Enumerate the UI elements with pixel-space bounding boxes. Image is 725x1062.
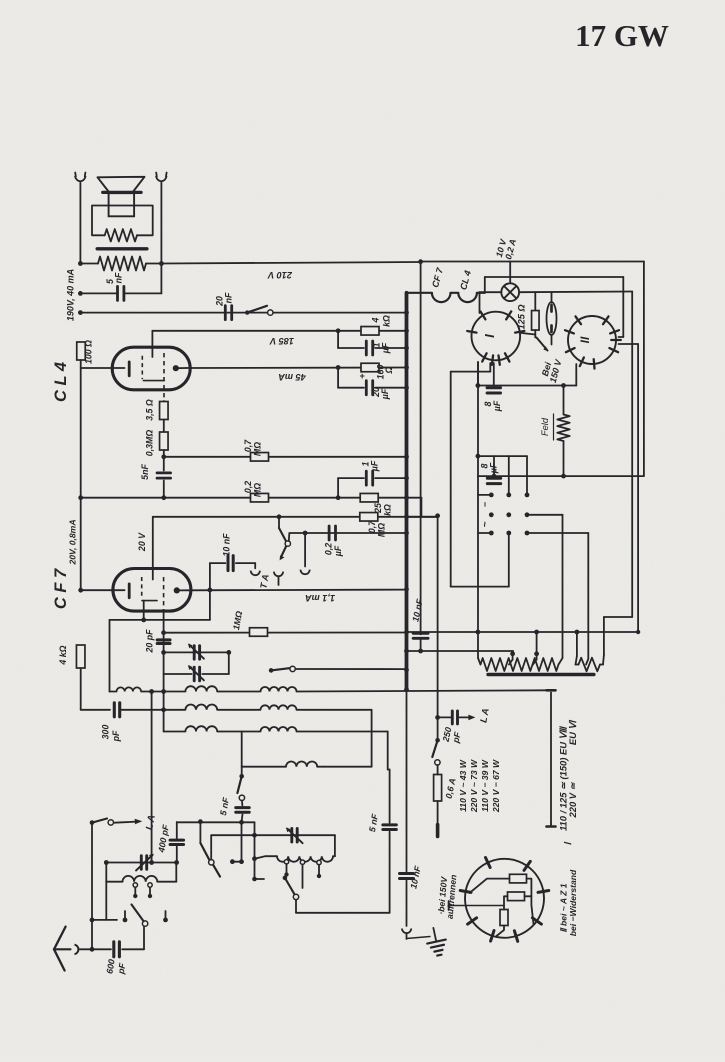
label CL4	[52, 362, 70, 402]
socket II circle	[568, 316, 616, 364]
node speaker-right / 210V	[159, 261, 164, 266]
wire long vertical (left selector rail)	[477, 362, 479, 658]
coil row2 left IF	[185, 705, 217, 710]
voltage table line1	[458, 759, 468, 812]
zigzag1 right hook	[559, 658, 563, 665]
fuse 0,6A	[434, 765, 442, 824]
label 5nF speaker	[105, 272, 124, 284]
node 0,2M/1µF corner	[336, 495, 341, 500]
svg-text:210 V: 210 V	[267, 270, 293, 280]
wire osc switch row	[269, 666, 407, 673]
wire antenna up rail	[91, 823, 93, 950]
heater CF7 filament dip	[432, 293, 451, 302]
node 250pF tap	[435, 715, 440, 720]
node anode/TA junction	[208, 588, 213, 593]
label 190V 40mA	[66, 269, 76, 321]
wire 25k jog	[420, 498, 422, 517]
svg-text:45 mA: 45 mA	[278, 372, 307, 382]
socket I circle	[472, 312, 521, 361]
wire trimmer loop right	[228, 652, 230, 674]
node tap1	[509, 651, 515, 664]
wire feld bottom lead	[563, 441, 565, 476]
label 100Ω	[84, 340, 94, 364]
node speaker-left / 210V	[78, 261, 83, 266]
svg-text:0,2: 0,2	[324, 543, 334, 555]
label 3,5Ω	[145, 399, 155, 421]
voltage table line3	[480, 759, 490, 812]
AZ1 resistor 3	[500, 910, 508, 926]
switch band 1	[132, 905, 148, 927]
svg-text:20V, 0,8mA: 20V, 0,8mA	[68, 519, 78, 565]
wire col2 bottom drop	[451, 533, 509, 587]
wire 10nF to transformer tap	[407, 640, 514, 654]
svg-text:17 GW: 17 GW	[575, 18, 669, 53]
wire socketII right pin line	[619, 344, 641, 634]
switch on 190V line	[245, 306, 273, 316]
filter2 top line	[211, 834, 335, 836]
bus thick line	[405, 293, 409, 690]
capacitor 10nF (HF bus)	[413, 633, 428, 638]
label 160Ω	[376, 365, 395, 380]
wire right frame to socketII	[619, 277, 624, 337]
coil row4 osc	[242, 761, 324, 766]
wire CF7 bottom to coil	[110, 620, 144, 692]
wire 632 lower line	[407, 631, 639, 633]
socket II label	[578, 336, 592, 343]
hook chassis plug	[402, 929, 411, 940]
svg-text:MΩ: MΩ	[253, 442, 263, 456]
ground symbol	[407, 926, 449, 957]
svg-text:+: +	[359, 371, 365, 381]
lamp 10V 0,2A	[501, 283, 519, 301]
svg-text:µF: µF	[333, 545, 343, 557]
wire right rail	[160, 183, 162, 294]
svg-text:0,2: 0,2	[243, 481, 253, 493]
wire row2 left (300pF line)	[81, 709, 110, 711]
trimmer cap 1	[188, 644, 204, 660]
filter1 left side	[105, 863, 107, 882]
tap lever Bei150V (arrow)	[537, 338, 553, 352]
label 8µF 1	[483, 400, 502, 412]
capacitor 1µF (second)	[338, 471, 406, 498]
svg-text:Ⅱ bei ~ A Z 1: Ⅱ bei ~ A Z 1	[559, 883, 569, 932]
wire 185V line	[152, 330, 406, 332]
node bus/20µF	[404, 385, 409, 390]
wire 8µF2 top row	[478, 455, 527, 457]
wire filter2 left contacts	[252, 859, 264, 882]
resistor 100Ω	[77, 342, 86, 360]
hook TA 2	[274, 572, 283, 585]
wire feld top lead	[563, 386, 565, 415]
node bus/coil row1	[404, 687, 409, 692]
label Bei 150V	[540, 358, 564, 384]
svg-text:0,3MΩ: 0,3MΩ	[145, 430, 155, 457]
label 0,7MΩ rowA	[243, 439, 263, 456]
switch 5nF top	[237, 774, 244, 801]
filter1 right side	[175, 863, 177, 882]
AZ1 wiring	[449, 879, 534, 936]
svg-text:MΩ: MΩ	[377, 523, 387, 537]
label 5nF osc	[218, 796, 231, 816]
label 0,2µF	[324, 543, 344, 557]
wire col3 mid to right	[527, 515, 563, 658]
wire row2 link	[217, 709, 260, 711]
svg-text:220 V − 67 W: 220 V − 67 W	[491, 759, 501, 813]
speaker cone	[98, 177, 145, 193]
wire row3 link	[217, 731, 260, 733]
coil filter2 taps	[284, 860, 321, 888]
svg-text:C F 7: C F 7	[52, 568, 70, 609]
arrow lever (TA select)	[280, 547, 286, 561]
resistor 3.5Ω (CL4 chain)	[160, 401, 169, 420]
capacitor 5nF (osc)	[236, 801, 250, 823]
label 210V	[267, 270, 293, 280]
label LA top	[144, 814, 157, 831]
wire row3 right drop	[297, 732, 390, 770]
wire vertical 420 line	[420, 262, 422, 635]
tube CF7 envelope	[113, 569, 191, 612]
svg-text:−: −	[480, 501, 490, 507]
label TA	[258, 573, 270, 589]
node 8µF row left	[476, 383, 481, 388]
node bus/grid row	[404, 514, 409, 519]
wire trimmer1 row	[164, 650, 232, 655]
filter1 top line	[106, 862, 176, 864]
capacitor 8µF (second)	[487, 456, 500, 484]
CF7 grid cap lead (to 20V line)	[152, 517, 154, 580]
AZ1 resistor 1	[510, 874, 527, 883]
wire col3 bottom to right	[527, 533, 588, 654]
wire lamp-right heater return	[519, 292, 632, 618]
capacitor 8µF (first)	[487, 363, 500, 393]
label 1µF	[372, 342, 391, 354]
node 8µF2 bottom	[492, 474, 497, 479]
svg-text:110 V ~ 43 W: 110 V ~ 43 W	[458, 759, 468, 812]
wire socket I pin drop B	[451, 363, 491, 587]
label 45mA	[278, 372, 307, 382]
svg-text:220 V ~ 73 W: 220 V ~ 73 W	[469, 759, 479, 813]
CF7 cathode bar	[128, 584, 131, 598]
CL4 screen grid lead to 185V	[151, 331, 153, 357]
wire top line right section	[421, 261, 644, 263]
svg-text:190V, 40 mA: 190V, 40 mA	[66, 269, 76, 321]
terminal tick row1/150V top	[547, 689, 556, 692]
svg-text:4: 4	[371, 317, 381, 323]
node 632/478	[476, 630, 481, 635]
wire 0,2µF row	[289, 532, 406, 534]
node 632/536.6 tap	[534, 630, 539, 654]
label 125Ω	[517, 304, 527, 329]
zigzag1 left hook	[478, 658, 481, 665]
wire socket II bottom-left drop	[575, 364, 577, 386]
switch mains	[432, 738, 440, 765]
heater line to lamp branch	[477, 277, 623, 293]
label 1µF rowB	[361, 460, 380, 472]
node 45mA/160Ω tap	[336, 365, 341, 370]
CF7 cathode lead	[81, 589, 125, 591]
transformer core bar	[97, 247, 147, 250]
node bus/padder row	[404, 649, 409, 654]
capacitor 10nF (TA)	[228, 556, 233, 571]
label 4kΩ	[371, 315, 392, 327]
wire grid row (20V line)	[153, 516, 438, 518]
transformer underline bar	[488, 673, 594, 676]
node bus/45mA	[404, 365, 409, 370]
resistor 0,2MΩ	[251, 493, 269, 502]
AZ1 pointer tick	[448, 901, 450, 910]
svg-text:bei −Widerstand: bei −Widerstand	[568, 869, 578, 936]
capacitor 0,2µF	[329, 526, 335, 540]
selector lever (grid)	[279, 517, 290, 547]
resistor 0,7MΩ	[251, 453, 269, 462]
wire 1,1mA anode line	[188, 589, 407, 592]
svg-text:~: ~	[480, 521, 491, 527]
heater line from bus	[407, 292, 432, 294]
svg-text:185 V: 185 V	[269, 336, 294, 346]
capacitor 400pF	[170, 822, 184, 863]
node bus/anode row	[404, 587, 409, 592]
lamp vertical lead	[509, 262, 511, 284]
wire 5nF chain bottom	[230, 822, 244, 864]
wire rail bottom corner	[80, 668, 82, 710]
node rail/CF7 top line	[78, 495, 83, 500]
svg-text:1,1 mA: 1,1 mA	[305, 593, 335, 603]
label AZ1 notes	[559, 869, 579, 936]
resistor 25kΩ	[360, 493, 378, 502]
heater CL4 filament dip	[458, 293, 477, 302]
svg-text:µF: µF	[370, 460, 380, 472]
resistor 4kΩ	[361, 327, 379, 336]
coil row1 right IF	[261, 687, 297, 692]
speaker left terminal hook	[75, 173, 86, 182]
label 10nF TA	[222, 533, 232, 557]
node hook3 junction	[303, 531, 308, 536]
node lv/0,7M... 456 row	[476, 454, 481, 459]
node bus/1µF	[404, 346, 409, 351]
label LA mains	[477, 707, 490, 723]
node bus/1MΩ row	[404, 630, 409, 635]
svg-text:0,7: 0,7	[243, 439, 253, 452]
wire 190V line	[80, 312, 406, 314]
node feld bottom	[561, 474, 566, 479]
thermal fuse oval	[547, 292, 557, 344]
wire x151 long drop	[151, 692, 153, 863]
svg-text:nF: nF	[224, 292, 234, 303]
AZ1 pins	[460, 858, 549, 942]
wire lamp-left to socket I	[480, 292, 502, 313]
wire row2 mid	[121, 709, 186, 711]
wire right frame corner	[604, 617, 632, 655]
svg-text:300: 300	[101, 725, 111, 740]
label bei150V auftrennen	[436, 874, 459, 919]
wire to band switch	[143, 927, 145, 950]
CF7 g2 lead bottom (dashed)	[163, 577, 165, 612]
label 0,6A	[444, 777, 458, 799]
node bias chain junction	[161, 454, 166, 459]
CL4 grid g1 (dashed)	[141, 356, 143, 380]
svg-text:Feld: Feld	[540, 417, 550, 436]
node 20pF/trimmer junction	[161, 650, 166, 655]
svg-text:nF: nF	[114, 272, 124, 283]
node antenna junction	[90, 947, 95, 952]
node rail/CF7 cathode	[78, 588, 83, 593]
svg-text:µF: µF	[380, 388, 390, 400]
wire 25k to jog	[407, 497, 422, 499]
resistor 0.3MΩ (CL4 chain)	[160, 420, 169, 451]
label CL4 heater	[458, 269, 473, 291]
zigzag2 mid tap	[586, 654, 588, 665]
svg-text:C L 4: C L 4	[52, 362, 70, 402]
label 25kΩ	[373, 503, 393, 516]
tube CL4 envelope	[112, 347, 190, 390]
wire row D extension	[407, 516, 438, 518]
trimmer cap filter2	[286, 827, 303, 843]
label 20nF	[215, 292, 234, 307]
label 5nF bias	[140, 464, 150, 480]
label 5nF second	[367, 813, 380, 833]
CL4 anode	[173, 365, 186, 371]
filter1 contact dots	[123, 911, 168, 922]
filter2 right side	[333, 835, 335, 856]
bus thin lower part	[406, 690, 408, 872]
label 400pF	[156, 823, 171, 854]
node filter1 right	[174, 860, 179, 865]
antenna symbol	[54, 927, 78, 971]
hook TA 1	[251, 571, 260, 576]
label 600pF	[104, 958, 127, 975]
selector contacts col1	[489, 493, 494, 536]
trimmer cap 2	[164, 665, 229, 681]
coil row2 right IF	[261, 705, 297, 709]
node rail/5nF	[78, 291, 83, 296]
svg-text:µF: µF	[381, 342, 391, 354]
coil row3 left IF	[164, 726, 218, 731]
coil row3 right IF	[261, 727, 297, 732]
selector contacts col3	[525, 493, 530, 536]
label 185V	[269, 336, 294, 346]
svg-text:4 kΩ: 4 kΩ	[58, 645, 68, 665]
coil row1 left IF	[185, 686, 217, 691]
label 10nF bottom	[408, 864, 423, 889]
svg-text:MΩ: MΩ	[253, 483, 263, 497]
title 17 GW	[575, 18, 669, 53]
svg-text:0,7: 0,7	[367, 520, 377, 533]
capacitor 600pF	[92, 942, 144, 957]
label 8µF 2	[480, 462, 499, 474]
speaker magnet frame	[92, 206, 153, 236]
wire CF7 top line	[81, 497, 407, 499]
label 20V 0,8mA	[68, 519, 78, 565]
node LA line left	[198, 819, 203, 824]
selector bracket stubs	[478, 495, 491, 533]
svg-text:EU Ⅵ: EU Ⅵ	[567, 720, 578, 746]
label − mark	[480, 501, 490, 507]
wire chain to node	[163, 450, 165, 457]
label 1MΩ	[231, 610, 244, 631]
wire row1 link	[217, 691, 260, 693]
label EU sockets	[558, 720, 579, 846]
label 1,1mA	[305, 593, 335, 603]
label 20V	[137, 532, 147, 552]
node tap2	[533, 651, 539, 664]
node 8µF row feld	[561, 383, 566, 388]
terminal tick mains I	[436, 825, 440, 837]
wire rail 100Ω to CF7	[80, 360, 82, 590]
transformer main zigzag	[481, 658, 559, 671]
coil filter1 taps	[133, 883, 152, 898]
node bus/0,2M row	[404, 495, 409, 500]
transformer second zigzag	[576, 658, 604, 672]
svg-text:pF: pF	[111, 730, 121, 742]
wire 5nF top feed	[241, 767, 243, 777]
CF7 anode	[174, 587, 188, 593]
AZ1 resistor 2	[508, 892, 525, 901]
CL4 g3 lead (dashed, to bias chain)	[144, 353, 165, 401]
wire selector col2 top drop	[508, 456, 510, 495]
wire row1 to 150V tap	[297, 690, 547, 691]
wire filter2 bottom loop	[296, 832, 390, 913]
CL4 cathode lead	[81, 367, 125, 369]
speaker right terminal hook	[156, 173, 167, 182]
speaker voice coil box	[109, 193, 135, 216]
node 185V/4kΩ tap	[336, 328, 341, 333]
filter2 left rail	[252, 822, 257, 861]
selector contacts col2	[506, 493, 511, 536]
resistor 0,7MΩ (grid)	[360, 513, 378, 522]
coil filter1	[106, 876, 176, 882]
wire TA branch	[210, 563, 225, 590]
CF7 g3 piece	[142, 600, 157, 602]
heater link	[451, 292, 459, 294]
label CF7 heater	[430, 266, 445, 289]
wire 150V drop	[550, 693, 552, 825]
resistor Feld (field coil) zigzag	[557, 415, 569, 442]
wire socket I bottom pin drop A	[477, 362, 479, 386]
svg-text:100 Ω: 100 Ω	[84, 340, 94, 364]
svg-text:220 V ≃: 220 V ≃	[567, 781, 578, 818]
svg-text:5nF: 5nF	[140, 464, 150, 480]
wire filter1 bottom	[90, 882, 117, 923]
node CF7 bottom junction	[141, 618, 146, 623]
node bus/1µF row	[404, 476, 409, 481]
trimmer cap filter1	[136, 854, 154, 871]
socket I pins	[467, 311, 524, 364]
node x151 filter	[149, 860, 154, 865]
wire socket I right pin to tap	[522, 333, 536, 335]
wire 0,7MΩ row line	[164, 456, 407, 458]
wire trimmer rail	[161, 612, 166, 732]
capacitor 5nF (bias)	[157, 457, 171, 498]
terminal tick 150V bottom	[547, 824, 556, 827]
wire row4 left link	[241, 732, 243, 767]
switch filter2 select	[200, 843, 220, 877]
node 632/576.9 tap	[575, 630, 580, 656]
label 300pF	[101, 725, 122, 743]
svg-text:125 Ω: 125 Ω	[517, 304, 527, 329]
svg-text:20 V: 20 V	[137, 532, 147, 552]
wire 210V line	[161, 262, 420, 264]
svg-text:3,5 Ω: 3,5 Ω	[145, 399, 155, 421]
node 210V corner	[418, 259, 423, 264]
zigzag2 right hook	[602, 655, 605, 665]
label 0,3MΩ	[145, 430, 155, 457]
capacitor 5nF (speaker)	[80, 286, 161, 300]
capacitor 10nF (bottom bus)	[400, 874, 414, 927]
CL4 cathode bar	[128, 362, 131, 376]
switch filter2	[283, 876, 299, 900]
node filter1 top left	[104, 860, 109, 865]
node bus/190V	[404, 310, 409, 315]
